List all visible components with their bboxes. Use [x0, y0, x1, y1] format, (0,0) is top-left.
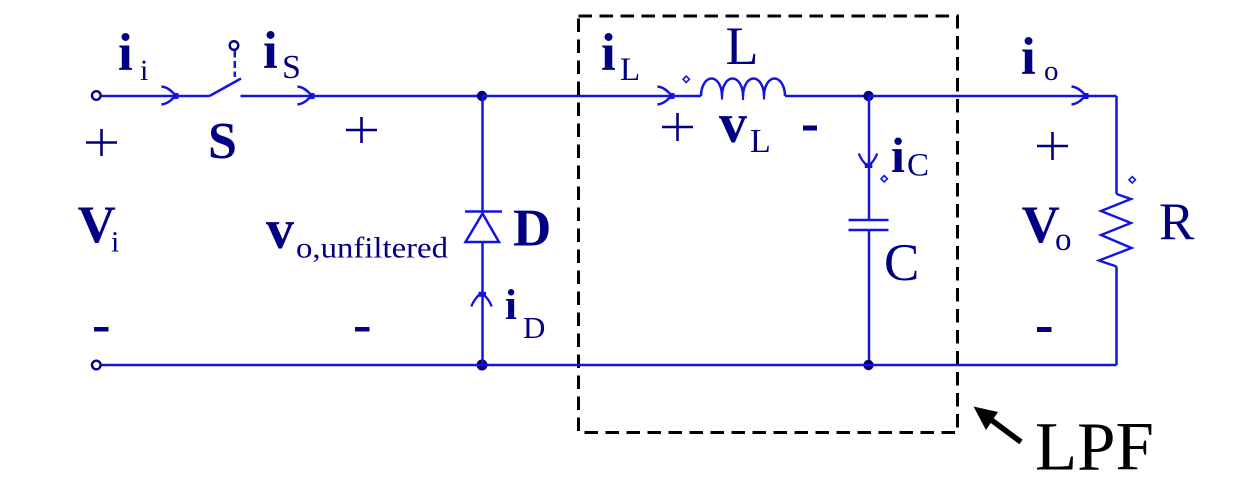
- svg-text:i: i: [118, 24, 133, 82]
- svg-text:i: i: [111, 226, 119, 259]
- svg-text:i: i: [505, 282, 517, 329]
- LPF dashed box: [579, 16, 958, 433]
- minus sign v_L: [803, 126, 817, 131]
- svg-text:R: R: [1159, 193, 1195, 251]
- svg-text:L: L: [726, 16, 759, 76]
- node B (top of capacitor): [863, 91, 873, 101]
- node A (top of diode): [477, 91, 487, 101]
- diode lower wire: [481, 242, 484, 365]
- wire: right side down to resistor: [1115, 96, 1118, 194]
- svg-text:S: S: [282, 49, 301, 86]
- diode cathode bar: [465, 210, 502, 213]
- svg-text:i: i: [891, 127, 905, 183]
- minus sign V_o: [1037, 327, 1052, 332]
- plus sign v_o,unfiltered: [346, 117, 377, 143]
- wire: switch to node A: [241, 95, 483, 98]
- capacitor bottom plate: [849, 229, 889, 232]
- capacitor top plate: [849, 219, 889, 222]
- bottom wire: [101, 364, 1117, 367]
- wire: inductor to node B: [785, 95, 869, 98]
- current arrow i_i: [162, 87, 176, 105]
- wire: node B to right corner: [869, 95, 1117, 98]
- node bottom of diode: [477, 360, 488, 371]
- svg-text:L: L: [620, 52, 640, 88]
- plus sign V_i: [86, 129, 117, 156]
- current arrow i_C (down): [859, 154, 877, 168]
- resistor R zigzag: [1099, 194, 1132, 267]
- minus sign v_o,unfiltered: [355, 327, 370, 332]
- wire: node A to LPF entry: [482, 95, 701, 98]
- minus sign V_i: [94, 327, 109, 332]
- current arrow i_L: [658, 87, 672, 105]
- svg-text:v: v: [266, 199, 294, 261]
- svg-text:o,unfiltered: o,unfiltered: [296, 232, 448, 265]
- inductor cusp ticks: [722, 96, 764, 100]
- switch S blade: [210, 79, 242, 97]
- input terminal bottom: [92, 361, 101, 370]
- svg-text:LPF: LPF: [1035, 409, 1154, 478]
- switch actuator dashed line: [234, 51, 237, 78]
- plus sign V_o: [1037, 132, 1068, 160]
- svg-text:D: D: [523, 310, 545, 345]
- capacitor lower wire: [868, 230, 871, 365]
- current arrow i_S: [298, 87, 312, 105]
- dot marker above resistor: [1129, 177, 1135, 183]
- plus sign v_L: [662, 113, 693, 141]
- svg-text:v: v: [719, 93, 747, 155]
- current arrow i_D (up): [471, 293, 491, 307]
- switch circle: [230, 41, 239, 50]
- svg-text:i: i: [1021, 28, 1036, 86]
- dot marker near i_C: [881, 176, 887, 182]
- LPF callout arrow: [990, 419, 1021, 442]
- svg-text:L: L: [750, 123, 771, 160]
- node bottom of capacitor: [863, 360, 873, 370]
- wire: resistor to bottom corner: [1115, 267, 1118, 366]
- svg-text:C: C: [884, 234, 919, 292]
- svg-text:i: i: [140, 54, 148, 87]
- diode triangle: [466, 214, 500, 243]
- svg-text:i: i: [601, 24, 616, 82]
- input terminal top: [92, 91, 101, 100]
- diode upper wire: [481, 96, 484, 212]
- dot marker at inductor start: [683, 76, 689, 82]
- svg-text:D: D: [513, 200, 551, 258]
- capacitor upper wire: [868, 96, 871, 219]
- svg-text:S: S: [208, 113, 237, 170]
- inductor L coil: [701, 79, 785, 97]
- svg-text:i: i: [263, 22, 278, 80]
- current arrow i_o: [1072, 87, 1086, 105]
- wire: top left segment to switch: [101, 95, 210, 98]
- svg-text:o: o: [1044, 55, 1059, 87]
- svg-text:o: o: [1055, 222, 1072, 258]
- svg-text:C: C: [907, 148, 929, 184]
